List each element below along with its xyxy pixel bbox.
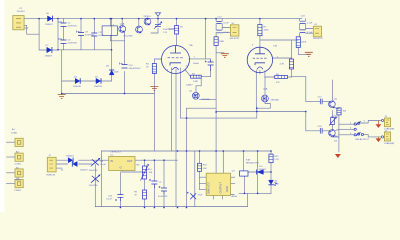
wire T1B plate out to C chain (260, 39, 298, 41)
capacitor C14 0.1uF grid lower (217, 30, 222, 33)
svg-text:1N4007: 1N4007 (66, 156, 74, 158)
svg-text:COM1: COM1 (15, 163, 22, 165)
wire y77.7 link (292, 76, 306, 78)
svg-text:100K: 100K (264, 30, 270, 32)
pad A2 COM1 (15, 153, 23, 161)
wire T1A heater leg x176 (175, 69, 177, 207)
vacuum tube T1A 12AX7 (162, 46, 190, 74)
vacuum tube T1B 12AX7 (247, 47, 272, 72)
wire switch row1 link (339, 123, 354, 125)
wire bottom ground rail y206.5 (95, 206, 247, 208)
svg-text:SW-SPST: SW-SPST (230, 38, 241, 40)
svg-text:+B25V: +B25V (331, 137, 338, 139)
wire gnd riser x247.5 (247, 193, 249, 206)
capacitor C17 base upper (320, 99, 322, 105)
LED DL1 (268, 180, 276, 186)
svg-text:LOAD(8R): LOAD(8R) (384, 142, 394, 145)
wire ground tee y52.8 (216, 52, 224, 54)
wire 10k drop x199.5 (199, 151, 201, 189)
svg-text:G: G (120, 166, 122, 170)
capacitor C22 47uF/16V (159, 186, 167, 195)
ground below R10 red (305, 52, 313, 56)
capacitor C2 cathode bypass (205, 60, 214, 71)
wire x305.8 vertical lower (305, 112, 307, 131)
svg-text:LED: LED (275, 184, 280, 186)
wire J1 pin3 stub (24, 27, 28, 29)
wire heater supply rail y151 (101, 150, 271, 152)
wire T1A plate pin1 out (189, 58, 211, 60)
svg-text:1N4007: 1N4007 (259, 169, 267, 171)
svg-text:2SC2383: 2SC2383 (123, 35, 133, 37)
connector J2 heater (47, 157, 56, 172)
wire U3 bottom stubs (213, 195, 234, 200)
wire pad3 lead (7, 172, 16, 174)
wire Q2A collector stub (121, 19, 123, 26)
wire JFET1 drain link (196, 78, 201, 92)
relay K1B RELAY-DPDT (240, 171, 249, 176)
switch contact middle (354, 128, 356, 130)
wire pot link x332.5 (332, 111, 334, 130)
wire J2 pin2 row y164 (56, 163, 92, 165)
resistor R14 emitter 100 (337, 108, 341, 115)
wire C9 vertical x81 (80, 19, 82, 50)
resistor R10 100K output (296, 37, 300, 48)
wire reg GND row (122, 171, 145, 173)
svg-text:47uF/16V: 47uF/16V (158, 196, 168, 198)
svg-text:100K: 100K (301, 41, 307, 43)
ground load2 red (376, 137, 382, 142)
svg-text:1N4007: 1N4007 (45, 24, 53, 26)
regulator U2 LM7812 (109, 156, 135, 170)
capacitor C15 0.1uF output upper (300, 21, 305, 23)
capacitor C18 base lower (320, 128, 322, 134)
diode D3 1N4007 flyback (256, 170, 263, 175)
wire CCS link y108 left (187, 107, 217, 109)
svg-text:1K/2W: 1K/2W (168, 29, 175, 31)
svg-text:RELAY-DPDT: RELAY-DPDT (246, 162, 260, 165)
wire sub rail y193.4 (239, 192, 271, 194)
diode D2 1N4007 (72, 161, 77, 166)
connector J1 (13, 16, 24, 30)
load J3 upper (381, 118, 390, 127)
potentiometer RP2 ADJ (141, 165, 149, 181)
wire cathode resistor x154.4 (154, 59, 161, 151)
wire Q3 collector stub (138, 19, 140, 27)
resistor R8 4.7K (289, 59, 293, 69)
svg-text:4.7uF: 4.7uF (307, 32, 313, 34)
svg-text:ADJ: ADJ (148, 168, 152, 171)
switch S2 SW-SPST (313, 26, 321, 37)
ground GND left red (58, 95, 66, 99)
varistor RV1 (91, 158, 100, 166)
resistor R3 100K (214, 37, 218, 46)
svg-text:GND: GND (225, 186, 229, 192)
wire cathode row right to cap (201, 76, 210, 78)
transistor Q4 TIP41C (144, 18, 151, 25)
resistor R1 1K/2W (174, 26, 178, 34)
capacitor C10 240uF/250V (120, 63, 128, 69)
trimmer capacitor C12 (154, 22, 162, 29)
switch contact SW3 upper (354, 121, 361, 125)
wire ground row y93.5 (62, 93, 155, 95)
wire filter vertical x58 (57, 19, 59, 50)
JFET Q2 2SK30A (192, 92, 199, 99)
svg-text:1N4148: 1N4148 (73, 86, 81, 88)
diode D10 1N4148 (75, 78, 80, 84)
wire T1B mid leg stub (259, 71, 261, 75)
wire chassis stem and trimmer x158 (151, 16, 158, 33)
wire switch row2 link (339, 134, 354, 136)
wire J1 pin2 jog (24, 25, 39, 34)
svg-text:T1B: T1B (273, 46, 278, 48)
capacitor C16 4.7uF output lower (300, 30, 305, 33)
wire R13 LED chain x271 (270, 151, 272, 193)
wire flyback diode row y172 (248, 171, 271, 173)
wire grid bus y118.1 (181, 108, 257, 118)
diode D6 1N4007 (48, 16, 53, 22)
wire JFET1 source link y99.4 (200, 98, 217, 100)
svg-text:PWR1: PWR1 (15, 190, 22, 192)
wire T1B plate feed x259.9 (259, 19, 261, 48)
pad A1 COM1 (15, 138, 23, 146)
wire Q6 emitter join (335, 136, 339, 137)
svg-text:IN: IN (110, 159, 113, 163)
wire relay coil bottom drop (244, 176, 246, 193)
wire series cap chain x63.5 (63, 19, 65, 50)
wire pad1 lead (7, 141, 16, 143)
wire chain to ground tee (298, 47, 309, 54)
svg-text:0.1uF: 0.1uF (98, 35, 104, 37)
svg-text:2.2K: 2.2K (274, 159, 279, 161)
transistor Q6 driver (329, 130, 336, 137)
svg-text:1N4007: 1N4007 (45, 56, 53, 58)
IC U3 optocoupler (206, 173, 230, 195)
svg-text:47uF: 47uF (198, 195, 204, 197)
svg-text:5960 VCC: 5960 VCC (207, 182, 211, 194)
svg-text:Q2A: Q2A (120, 22, 125, 25)
ground below R3 red (221, 54, 229, 58)
wire U3 top pin drops (216, 151, 223, 173)
wire long vertical x186.5 (186, 108, 188, 206)
wire lower rail 0V (58, 49, 112, 51)
switch S1 SW-SPST (230, 25, 239, 36)
wire trimpot x144.5 (144, 160, 146, 206)
pad B1 PWR1 (15, 169, 23, 177)
transistor Q3 2SC2383 (136, 26, 143, 33)
svg-text:0.1uF: 0.1uF (307, 22, 313, 24)
chassis earth symbol (155, 13, 161, 16)
wire switch mid link (339, 128, 354, 130)
wire filter cap x154.4 (153, 160, 155, 206)
svg-text:1N4148: 1N4148 (94, 86, 102, 88)
wire top B+ rail (24, 18, 302, 20)
wire CCS feed x216.1 (215, 46, 217, 152)
ground load1 red (376, 121, 382, 128)
white margin strip (0, 0, 5, 212)
JFET Q1A 2SK30A (262, 95, 269, 102)
svg-text:2SK30A: 2SK30A (271, 99, 280, 102)
wire coupling node x205.6 (205, 19, 207, 59)
wire output cap chain loop (300, 19, 306, 37)
wire upper driver collector (332, 80, 334, 100)
svg-text:10K: 10K (149, 172, 153, 174)
transistor Q5 driver (329, 101, 336, 108)
wire Q1A source link (257, 102, 271, 108)
resistor R2 cathode 1K (152, 64, 156, 74)
wire relay coil drop x243.5 (243, 151, 245, 171)
wire varistor chain x95.3 (94, 165, 96, 207)
transistor Q2A (119, 26, 126, 33)
svg-text:120K: 120K (193, 81, 199, 83)
svg-text:1N4007: 1N4007 (80, 170, 88, 172)
wire J2 pin1 row y160.2 (56, 159, 109, 161)
svg-text:10D471K: 10D471K (89, 185, 99, 187)
wire T1B cathode down (264, 71, 266, 78)
svg-text:LM7812CT: LM7812CT (111, 151, 122, 153)
capacitor C13 0.1uF grid upper (217, 21, 222, 23)
wire Q5 emitter join (335, 107, 339, 108)
svg-text:SW-SPST: SW-SPST (313, 38, 324, 40)
wire reg GND cap x120.4 (119, 172, 121, 207)
resistor R7 plate 100K (258, 25, 262, 36)
wire U3 right pin stubs (231, 177, 235, 183)
svg-text:47uF/50V: 47uF/50V (85, 35, 95, 37)
svg-text:HDR1X3: HDR1X3 (47, 175, 56, 177)
wire bias chain vertical x111.5 (111, 19, 113, 81)
svg-text:COM1: COM1 (11, 132, 18, 134)
svg-text:12AX7: 12AX7 (186, 84, 193, 87)
svg-text:4148: 4148 (114, 72, 120, 74)
wire lower driver base y130.8 (306, 130, 330, 132)
wire output feed x291.5 (291, 41, 293, 77)
svg-text:Q1A: Q1A (263, 88, 268, 91)
svg-text:2SK30A: 2SK30A (202, 98, 211, 101)
resistor R4 120K horizontal (191, 75, 202, 78)
svg-text:+B25V: +B25V (331, 117, 338, 119)
wire x305.8 vertical upper (305, 77, 307, 102)
wire down to ground x61.7 (61, 50, 63, 94)
svg-text:47uF/50V: 47uF/50V (68, 43, 78, 45)
svg-text:100uF: 100uF (193, 63, 200, 65)
wire D7 feed drop x39.1 (39, 19, 58, 50)
wire T1B cathode row (265, 76, 292, 78)
wire Q6 collector join (335, 130, 339, 131)
diode D9 bias vertical (109, 70, 114, 75)
wire T1A cathode to R row (185, 70, 191, 77)
wire U3 left pin stubs (200, 177, 207, 189)
svg-text:0.1uF: 0.1uF (100, 164, 106, 166)
svg-text:0.1uF: 0.1uF (223, 22, 229, 24)
wire relay drop x257.6 (257, 151, 259, 193)
wire K1A coil pin up (109, 19, 111, 26)
wire cap vertical x94.3 (93, 19, 95, 50)
wire T1B grid leg x256.8 (255, 70, 257, 108)
resistor R5 1K (142, 190, 146, 199)
wire bias diode row y81 (62, 80, 112, 82)
capacitor C20 0.1uF (115, 194, 123, 201)
capacitor C23 heater filter (187, 192, 196, 199)
wire pad2 lead (7, 156, 16, 158)
wire upper driver base y101.4 (306, 100, 330, 102)
diode D7 1N4007 (47, 47, 52, 53)
capacitor C6 47uF/50V lower (59, 38, 67, 44)
wire Q1A drain feed (264, 77, 266, 95)
wire T1B pin7 out (273, 57, 292, 59)
svg-text:T1A: T1A (189, 44, 194, 47)
wire heater vertical x194.8 (194, 151, 196, 207)
wire grid-leak chain loop (216, 19, 222, 37)
capacitor C5 47uF/50V upper (59, 21, 67, 27)
wire plate feed T1A x176.5 (176, 19, 178, 46)
capacitor C21 filter (149, 179, 157, 188)
svg-text:13-0413: 13-0413 (17, 11, 26, 13)
wire S1 switch stubs (222, 28, 230, 33)
svg-text:240uF/250V: 240uF/250V (129, 68, 141, 70)
svg-text:K1B: K1B (246, 159, 251, 161)
load J4 lower (381, 132, 390, 141)
switch contact SW4 lower (354, 132, 363, 136)
svg-text:10K: 10K (203, 168, 207, 170)
varistor RV2 (91, 175, 100, 183)
diode D1 1N4007 (68, 158, 73, 163)
svg-text:47uF/50V: 47uF/50V (68, 26, 78, 28)
potentiometer RP1 bias (329, 117, 337, 126)
wire C10 vertical x124.5 (124, 33, 126, 94)
svg-text:0.1uF: 0.1uF (106, 199, 112, 201)
capacitor C11 0.1uF (91, 33, 97, 36)
svg-text:AD30: AD30 (232, 195, 238, 198)
wire reg OUT row (135, 159, 178, 161)
wire pad4 lead (7, 182, 16, 184)
svg-text:RELAY-DPDT: RELAY-DPDT (356, 138, 370, 141)
ground cathode T1A red (150, 87, 158, 91)
wire long bus y112 (216, 111, 306, 113)
resistor R13 2.2K (269, 154, 273, 163)
svg-text:OUT: OUT (127, 159, 133, 163)
wire T1A grid leg x180.5 (180, 68, 182, 118)
wire T1A heater leg x171.5 (171, 68, 173, 151)
wire K1A coil pin down (110, 35, 124, 40)
resistor R9 470 horizontal (275, 76, 288, 79)
svg-text:4.7uF: 4.7uF (223, 32, 229, 34)
diode D11 1N4148 (96, 78, 101, 84)
wire J2 pin3 stub (56, 167, 62, 169)
wire emitter rail x338.9 (338, 108, 340, 153)
wire cap x164 (163, 160, 165, 206)
wire cathode cap down x210.6 (210, 59, 212, 77)
svg-text:TIP41C: TIP41C (143, 16, 151, 18)
svg-text:10D471K: 10D471K (89, 170, 99, 172)
pad B2 PWR1 (15, 180, 23, 188)
svg-text:100K: 100K (219, 41, 225, 43)
wire switch1 to load1 (360, 121, 381, 124)
resistor R12 10K (198, 163, 202, 171)
wire switch2 to load2 (364, 134, 382, 137)
svg-text:4.7K: 4.7K (280, 64, 285, 66)
wire S2 switch stubs (306, 29, 314, 34)
svg-text:OUTPUT: OUTPUT (219, 182, 223, 194)
wire left vertical x101.4 (100, 151, 102, 207)
capacitor C9 47uF/50V (77, 31, 85, 36)
relay coil K1A (102, 26, 117, 36)
ground below Q6 red (335, 154, 341, 158)
